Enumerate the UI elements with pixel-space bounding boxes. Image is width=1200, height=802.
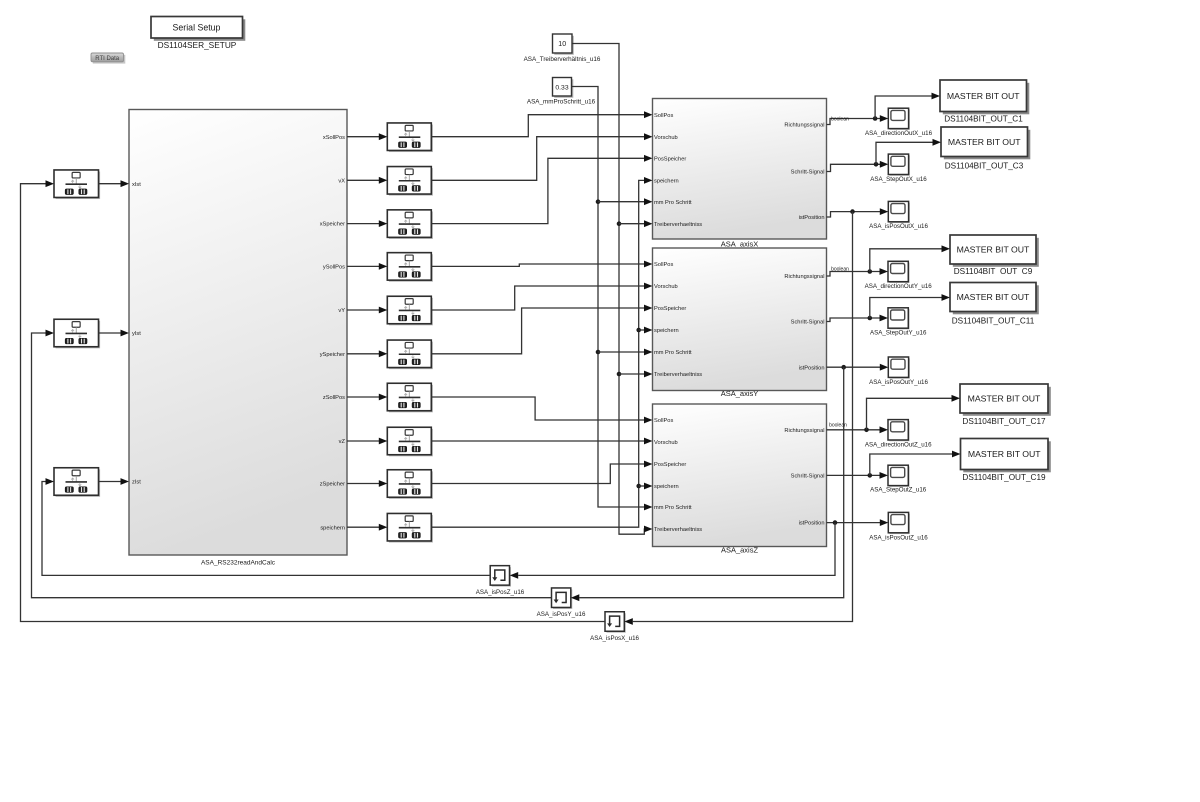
svg-text:ASA_isPosOutX_u16: ASA_isPosOutX_u16 — [869, 223, 928, 230]
block MASTER BIT OUT (DS1104BIT_OUT_C19) — [961, 439, 1051, 473]
svg-text:ASA_isPosX_u16: ASA_isPosX_u16 — [590, 635, 639, 642]
wire xIst feeder to ASA_RS232readAndCalc — [99, 180, 130, 187]
wire ASA_axisZ Schritt-Signal to scope and C19 — [827, 451, 961, 479]
block MASTER BIT OUT (DS1104BIT OUT C9) — [950, 235, 1039, 267]
svg-text:DS1104BIT_OUT_C11: DS1104BIT_OUT_C11 — [952, 316, 1035, 325]
output port label Schritt-Signal of ASA_axisZ — [791, 474, 825, 480]
label ASA_isPosOutX_u16 — [869, 223, 928, 230]
output port label vY of ASA_RS232readAndCalc — [338, 308, 345, 314]
output port label speichern of ASA_RS232readAndCalc — [320, 525, 345, 531]
svg-text:SollPos: SollPos — [654, 262, 673, 268]
svg-text:MASTER BIT OUT: MASTER BIT OUT — [957, 292, 1030, 302]
svg-text:mm Pro Schritt: mm Pro Schritt — [654, 200, 692, 206]
wire ySollPos to ASA_axisY SollPos — [431, 261, 652, 268]
input port label SollPos of ASA_axisY — [654, 262, 673, 268]
svg-text:ASA_isPosZ_u16: ASA_isPosZ_u16 — [476, 589, 525, 596]
input port label Vorschub of ASA_axisY — [654, 284, 678, 290]
wire ySollPos from ASA_RS232readAndCalc to transmit block — [347, 263, 387, 270]
input port label PosSpeicher of ASA_axisX — [654, 156, 686, 162]
serial receive block feeding xIst — [54, 170, 100, 199]
svg-text:ySollPos: ySollPos — [323, 265, 345, 271]
label DS1104BIT_OUT_C19 — [962, 473, 1046, 482]
input port label speichern of ASA_axisY — [654, 328, 679, 334]
label ASA_isPosX_u16 — [590, 635, 639, 642]
svg-text:DS1104BIT_OUT_C3: DS1104BIT_OUT_C3 — [945, 162, 1024, 171]
svg-text:Vorschub: Vorschub — [654, 135, 678, 141]
svg-text:PosSpeicher: PosSpeicher — [654, 156, 686, 162]
wire zSpeicher to ASA_axisZ PosSpeicher — [431, 461, 652, 484]
wire speichern from ASA_RS232readAndCalc to transmit block — [347, 524, 387, 531]
wire xSpeicher from ASA_RS232readAndCalc to transmit block — [347, 220, 387, 227]
constant block 0.33 — [553, 78, 574, 98]
wire ASA_isPosZ output back to zIst feeder — [42, 478, 490, 575]
input port label PosSpeicher of ASA_axisY — [654, 306, 686, 312]
svg-text:ASA_directionOutX_u16: ASA_directionOutX_u16 — [865, 130, 933, 137]
svg-text:ASA_directionOutZ_u16: ASA_directionOutZ_u16 — [865, 441, 932, 448]
output port label istPosition of ASA_axisY — [799, 365, 825, 371]
label DS1104SER_SETUP — [158, 40, 237, 50]
svg-text:speichern: speichern — [654, 179, 679, 185]
svg-text:zIst: zIst — [132, 480, 141, 486]
label DS1104BIT_OUT_C11 — [952, 316, 1035, 325]
junction speichern bus to ASA_axisZ — [636, 483, 652, 490]
wire ASA_axisY istPosition to scope and feedback — [827, 364, 889, 371]
svg-text:ySpeicher: ySpeicher — [320, 352, 345, 358]
serial transmit block for vZ — [387, 427, 433, 456]
serial transmit block for xSollPos — [387, 123, 433, 152]
wire ASA_isPosY output back to yIst feeder — [32, 330, 552, 598]
svg-text:ASA_axisZ: ASA_axisZ — [721, 546, 759, 555]
input port label mm Pro Schritt of ASA_axisX — [654, 200, 692, 206]
output port label Richtungssignal of ASA_axisZ — [784, 428, 824, 434]
svg-text:Treiberverhaeltniss: Treiberverhaeltniss — [654, 372, 702, 378]
svg-text:Richtungssignal: Richtungssignal — [784, 274, 824, 280]
label ASA_directionOutZ_u16 — [865, 441, 932, 448]
input port label mm Pro Schritt of ASA_axisY — [654, 350, 692, 356]
block MASTER BIT OUT (DS1104BIT_OUT_C1) — [940, 80, 1029, 114]
wire zSpeicher from ASA_RS232readAndCalc to transmit block — [347, 480, 387, 487]
scope block ASA_directionOutY_u16 — [888, 261, 910, 283]
serial transmit block for vY — [387, 296, 433, 325]
svg-text:boolean: boolean — [831, 116, 849, 122]
svg-text:ASA_Treiberverhältnis_u16: ASA_Treiberverhältnis_u16 — [524, 56, 601, 63]
output port label Richtungssignal of ASA_axisX — [784, 123, 824, 129]
svg-text:zSpeicher: zSpeicher — [320, 482, 345, 488]
junction 10 bus to ASA_axisY Treiberverhaeltniss — [617, 371, 653, 378]
wire xSollPos to ASA_axisX SollPos — [431, 111, 652, 136]
feedback block ASA_isPosZ_u16 — [490, 566, 511, 587]
label ASA_StepOutX_u16 — [870, 176, 927, 183]
output port label vX of ASA_RS232readAndCalc — [338, 178, 345, 184]
wire speichern bus from transmit block to ASA_axisX speichern — [431, 177, 652, 527]
junction 10 bus to ASA_axisX Treiberverhaeltniss — [617, 220, 653, 227]
svg-text:ASA_isPosY_u16: ASA_isPosY_u16 — [537, 611, 586, 618]
label ASA_directionOutY_u16 — [865, 283, 933, 290]
svg-text:Serial Setup: Serial Setup — [173, 23, 221, 33]
svg-text:DS1104BIT_OUT_C1: DS1104BIT_OUT_C1 — [944, 114, 1023, 123]
svg-text:speichern: speichern — [654, 484, 679, 490]
output port label zSollPos of ASA_RS232readAndCalc — [323, 395, 345, 401]
svg-text:Schritt-Signal: Schritt-Signal — [791, 474, 825, 480]
wire ASA_axisZ istPosition to scope and feedback — [827, 519, 889, 526]
label ASA_Treiberverhältnis_u16 — [524, 56, 601, 63]
svg-text:mm Pro Schritt: mm Pro Schritt — [654, 350, 692, 356]
svg-text:istPosition: istPosition — [799, 521, 825, 527]
label DS1104BIT OUT C9 — [954, 267, 1033, 276]
svg-text:RTI Data: RTI Data — [95, 56, 120, 62]
output port label vZ of ASA_RS232readAndCalc — [339, 439, 346, 445]
label ASA_isPosOutZ_u16 — [869, 534, 928, 541]
wire vY from ASA_RS232readAndCalc to transmit block — [347, 307, 387, 314]
svg-text:PosSpeicher: PosSpeicher — [654, 306, 686, 312]
scope block ASA_directionOutZ_u16 — [888, 420, 910, 442]
output port label xSpeicher of ASA_RS232readAndCalc — [320, 222, 345, 228]
wire xSpeicher to ASA_axisX PosSpeicher — [431, 155, 652, 224]
svg-text:vY: vY — [338, 308, 345, 314]
serial transmit block for speichern — [387, 513, 433, 542]
subsystem ASA_axisY — [653, 248, 827, 391]
svg-text:ASA_RS232readAndCalc: ASA_RS232readAndCalc — [201, 560, 276, 567]
wire X istPosition feedback down to ASA_isPosX — [624, 212, 852, 625]
wire ASA_axisY Richtungssignal to scope and C9 — [827, 245, 951, 276]
wire zIst feeder to ASA_RS232readAndCalc — [99, 478, 130, 485]
type label boolean on Z Richtungssignal — [829, 422, 847, 428]
constant block 10 — [553, 34, 574, 55]
input port label SollPos of ASA_axisZ — [654, 418, 673, 424]
serial transmit block for vX — [387, 167, 433, 196]
scope block ASA_directionOutX_u16 — [888, 108, 910, 130]
svg-text:PosSpeicher: PosSpeicher — [654, 462, 686, 468]
label ASA_isPosZ_u16 — [476, 589, 525, 596]
wire vX to ASA_axisX Vorschub — [431, 133, 652, 180]
svg-text:yIst: yIst — [132, 331, 141, 337]
label ASA_mmProSchritt_u16 — [527, 98, 596, 105]
svg-text:ASA_axisY: ASA_axisY — [721, 389, 759, 398]
svg-text:DS1104BIT OUT C9: DS1104BIT OUT C9 — [954, 267, 1033, 276]
svg-text:SollPos: SollPos — [654, 418, 673, 424]
svg-text:MASTER BIT OUT: MASTER BIT OUT — [968, 394, 1041, 404]
svg-text:Vorschub: Vorschub — [654, 284, 678, 290]
svg-text:ASA_isPosOutZ_u16: ASA_isPosOutZ_u16 — [869, 534, 928, 541]
wire Z istPosition feedback down to ASA_isPosZ — [510, 523, 835, 579]
input port label xIst of ASA_RS232readAndCalc — [132, 182, 141, 188]
label ASA_isPosY_u16 — [537, 611, 586, 618]
wire ASA_axisX istPosition to scope and feedback — [827, 208, 889, 217]
wire zSollPos from ASA_RS232readAndCalc to transmit block — [347, 394, 387, 401]
svg-text:ASA_isPosOutY_u16: ASA_isPosOutY_u16 — [869, 379, 928, 386]
junction speichern bus to ASA_axisY — [636, 327, 652, 334]
input port label zIst of ASA_RS232readAndCalc — [132, 480, 141, 486]
feedback block ASA_isPosY_u16 — [552, 588, 573, 609]
svg-text:DS1104SER_SETUP: DS1104SER_SETUP — [158, 40, 237, 50]
output port label istPosition of ASA_axisX — [799, 215, 825, 221]
svg-text:Richtungssignal: Richtungssignal — [784, 123, 824, 129]
svg-text:xSollPos: xSollPos — [323, 135, 345, 141]
svg-text:Treiberverhaeltniss: Treiberverhaeltniss — [654, 527, 702, 533]
label ASA_StepOutZ_u16 — [870, 487, 927, 494]
svg-text:Schritt-Signal: Schritt-Signal — [791, 320, 825, 326]
svg-text:speichern: speichern — [654, 328, 679, 334]
serial transmit block for ySollPos — [387, 253, 433, 282]
label ASA_axisZ — [721, 546, 759, 555]
serial transmit block for xSpeicher — [387, 210, 433, 239]
serial transmit block for zSollPos — [387, 383, 433, 412]
label ASA_RS232readAndCalc — [201, 560, 276, 567]
wire yIst feeder to ASA_RS232readAndCalc — [99, 330, 130, 337]
wire constant 0.33 bus (mmProSchritt) — [572, 87, 653, 511]
wire vX from ASA_RS232readAndCalc to transmit block — [347, 177, 387, 184]
svg-text:Vorschub: Vorschub — [654, 440, 678, 446]
scope block ASA_StepOutY_u16 — [888, 308, 910, 330]
label ASA_StepOutY_u16 — [870, 330, 927, 337]
output port label istPosition of ASA_axisZ — [799, 521, 825, 527]
svg-text:ASA_StepOutZ_u16: ASA_StepOutZ_u16 — [870, 487, 927, 494]
RTI Data badge — [91, 53, 125, 64]
svg-text:ASA_axisX: ASA_axisX — [721, 239, 759, 248]
input port label PosSpeicher of ASA_axisZ — [654, 462, 686, 468]
label DS1104BIT_OUT_C17 — [962, 417, 1046, 426]
svg-text:Richtungssignal: Richtungssignal — [784, 428, 824, 434]
block DS1104SER_SETUP (Serial Setup) — [151, 17, 245, 41]
block MASTER BIT OUT (DS1104BIT_OUT_C3) — [941, 127, 1030, 159]
wire vZ to ASA_axisZ Vorschub — [431, 438, 652, 445]
output port label Schritt-Signal of ASA_axisX — [791, 170, 825, 176]
svg-text:MASTER BIT OUT: MASTER BIT OUT — [948, 137, 1021, 147]
serial receive block feeding zIst — [54, 468, 100, 497]
serial receive block feeding yIst — [54, 319, 100, 348]
wire ASA_axisX Richtungssignal to scope and C1 — [827, 93, 941, 125]
wire ASA_axisX Schritt-Signal to scope and C3 — [827, 139, 942, 172]
junction 0.33 bus to ASA_axisX mm Pro Schritt — [596, 198, 653, 205]
svg-text:Schritt-Signal: Schritt-Signal — [791, 170, 825, 176]
type label boolean on X Richtungssignal — [831, 116, 849, 122]
input port label Vorschub of ASA_axisZ — [654, 440, 678, 446]
wire Y istPosition feedback down to ASA_isPosY — [571, 367, 844, 601]
svg-text:ASA_StepOutY_u16: ASA_StepOutY_u16 — [870, 330, 927, 337]
wire ASA_axisY Schritt-Signal to scope and C11 — [827, 294, 951, 321]
svg-text:xIst: xIst — [132, 182, 141, 188]
input port label Treiberverhaeltniss of ASA_axisZ — [654, 527, 702, 533]
output port label Schritt-Signal of ASA_axisY — [791, 320, 825, 326]
output port label Richtungssignal of ASA_axisY — [784, 274, 824, 280]
subsystem ASA_axisX — [653, 99, 827, 240]
input port label yIst of ASA_RS232readAndCalc — [132, 331, 141, 337]
svg-text:10: 10 — [558, 41, 566, 48]
svg-text:boolean: boolean — [829, 422, 847, 428]
wire xSollPos from ASA_RS232readAndCalc to transmit block — [347, 133, 387, 140]
wire ASA_axisZ Richtungssignal to scope and C17 — [827, 395, 961, 433]
scope block ASA_StepOutZ_u16 — [888, 465, 910, 487]
label DS1104BIT_OUT_C1 — [944, 114, 1023, 123]
subsystem ASA_RS232readAndCalc — [129, 110, 347, 556]
output port label zSpeicher of ASA_RS232readAndCalc — [320, 482, 345, 488]
wire vY to ASA_axisY Vorschub — [431, 283, 652, 310]
label ASA_axisX — [721, 239, 759, 248]
serial transmit block for ySpeicher — [387, 340, 433, 369]
input port label speichern of ASA_axisX — [654, 179, 679, 185]
type label boolean on Y Richtungssignal — [831, 266, 849, 272]
wire zSollPos to ASA_axisZ SollPos — [431, 397, 652, 423]
svg-text:boolean: boolean — [831, 266, 849, 272]
label ASA_directionOutX_u16 — [865, 130, 933, 137]
svg-text:DS1104BIT_OUT_C19: DS1104BIT_OUT_C19 — [962, 473, 1046, 482]
svg-text:istPosition: istPosition — [799, 215, 825, 221]
subsystem ASA_axisZ — [653, 404, 827, 547]
wire constant 10 bus (Treiberverhaeltnis) — [572, 44, 653, 535]
label DS1104BIT_OUT_C3 — [945, 162, 1024, 171]
label ASA_isPosOutY_u16 — [869, 379, 928, 386]
svg-text:MASTER BIT OUT: MASTER BIT OUT — [957, 245, 1030, 255]
svg-text:ASA_directionOutY_u16: ASA_directionOutY_u16 — [865, 283, 933, 290]
input port label SollPos of ASA_axisX — [654, 113, 673, 119]
input port label speichern of ASA_axisZ — [654, 484, 679, 490]
block MASTER BIT OUT (DS1104BIT_OUT_C11) — [950, 283, 1039, 315]
svg-text:ASA_mmProSchritt_u16: ASA_mmProSchritt_u16 — [527, 98, 596, 105]
output port label xSollPos of ASA_RS232readAndCalc — [323, 135, 345, 141]
svg-text:speichern: speichern — [320, 525, 345, 531]
wire ASA_isPosX output back to xIst feeder — [21, 180, 606, 621]
svg-text:vZ: vZ — [339, 439, 346, 445]
feedback block ASA_isPosX_u16 — [605, 612, 626, 633]
scope block ASA_StepOutX_u16 — [888, 154, 910, 176]
output port label ySollPos of ASA_RS232readAndCalc — [323, 265, 345, 271]
svg-text:istPosition: istPosition — [799, 365, 825, 371]
input port label Treiberverhaeltniss of ASA_axisY — [654, 372, 702, 378]
wire ySpeicher from ASA_RS232readAndCalc to transmit block — [347, 350, 387, 357]
svg-text:zSollPos: zSollPos — [323, 395, 345, 401]
input port label Treiberverhaeltniss of ASA_axisX — [654, 222, 702, 228]
output port label ySpeicher of ASA_RS232readAndCalc — [320, 352, 345, 358]
scope block ASA_isPosOutY_u16 — [888, 357, 910, 379]
wire ySpeicher to ASA_axisY PosSpeicher — [431, 305, 652, 354]
serial transmit block for zSpeicher — [387, 470, 433, 499]
svg-text:0.33: 0.33 — [555, 85, 568, 92]
svg-text:DS1104BIT_OUT_C17: DS1104BIT_OUT_C17 — [962, 417, 1046, 426]
svg-text:Treiberverhaeltniss: Treiberverhaeltniss — [654, 222, 702, 228]
block MASTER BIT OUT (DS1104BIT_OUT_C17) — [960, 384, 1051, 416]
junction 0.33 bus to ASA_axisY mm Pro Schritt — [596, 349, 653, 356]
input port label Vorschub of ASA_axisX — [654, 135, 678, 141]
svg-text:mm Pro Schritt: mm Pro Schritt — [654, 505, 692, 511]
svg-text:vX: vX — [338, 178, 345, 184]
svg-text:MASTER BIT OUT: MASTER BIT OUT — [968, 449, 1041, 459]
svg-text:xSpeicher: xSpeicher — [320, 222, 345, 228]
svg-text:ASA_StepOutX_u16: ASA_StepOutX_u16 — [870, 176, 927, 183]
scope block ASA_isPosOutZ_u16 — [888, 512, 910, 534]
svg-text:MASTER BIT OUT: MASTER BIT OUT — [947, 91, 1020, 101]
input port label mm Pro Schritt of ASA_axisZ — [654, 505, 692, 511]
label ASA_axisY — [721, 389, 759, 398]
scope block ASA_isPosOutX_u16 — [888, 201, 910, 223]
wire vZ from ASA_RS232readAndCalc to transmit block — [347, 438, 387, 445]
svg-text:SollPos: SollPos — [654, 113, 673, 119]
